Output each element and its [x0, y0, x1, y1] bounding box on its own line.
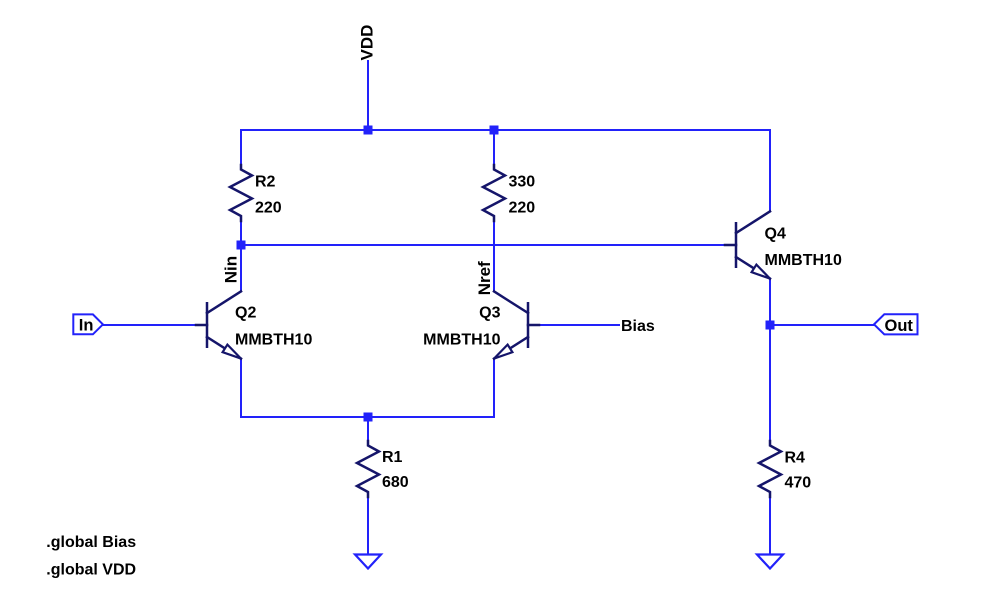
svg-text:VDD: VDD	[357, 25, 376, 61]
svg-text:Q3: Q3	[479, 305, 500, 322]
svg-text:Nin: Nin	[221, 256, 240, 283]
svg-text:R1: R1	[382, 449, 403, 466]
svg-text:Bias: Bias	[621, 318, 655, 335]
svg-text:R2: R2	[255, 173, 276, 190]
svg-text:Q2: Q2	[235, 305, 256, 322]
svg-text:Out: Out	[885, 317, 914, 335]
svg-text:220: 220	[509, 200, 536, 217]
svg-text:Q4: Q4	[765, 225, 786, 242]
svg-text:470: 470	[785, 475, 812, 492]
svg-text:In: In	[79, 316, 94, 334]
svg-text:MMBTH10: MMBTH10	[765, 252, 842, 269]
svg-text:MMBTH10: MMBTH10	[235, 332, 312, 349]
svg-text:220: 220	[255, 200, 282, 217]
svg-text:680: 680	[382, 474, 409, 491]
svg-text:.global Bias: .global Bias	[46, 534, 136, 551]
svg-text:Nref: Nref	[475, 261, 494, 295]
svg-text:R4: R4	[785, 450, 806, 467]
svg-text:.global VDD: .global VDD	[46, 562, 136, 579]
svg-text:330: 330	[509, 173, 536, 190]
svg-text:MMBTH10: MMBTH10	[423, 332, 500, 349]
